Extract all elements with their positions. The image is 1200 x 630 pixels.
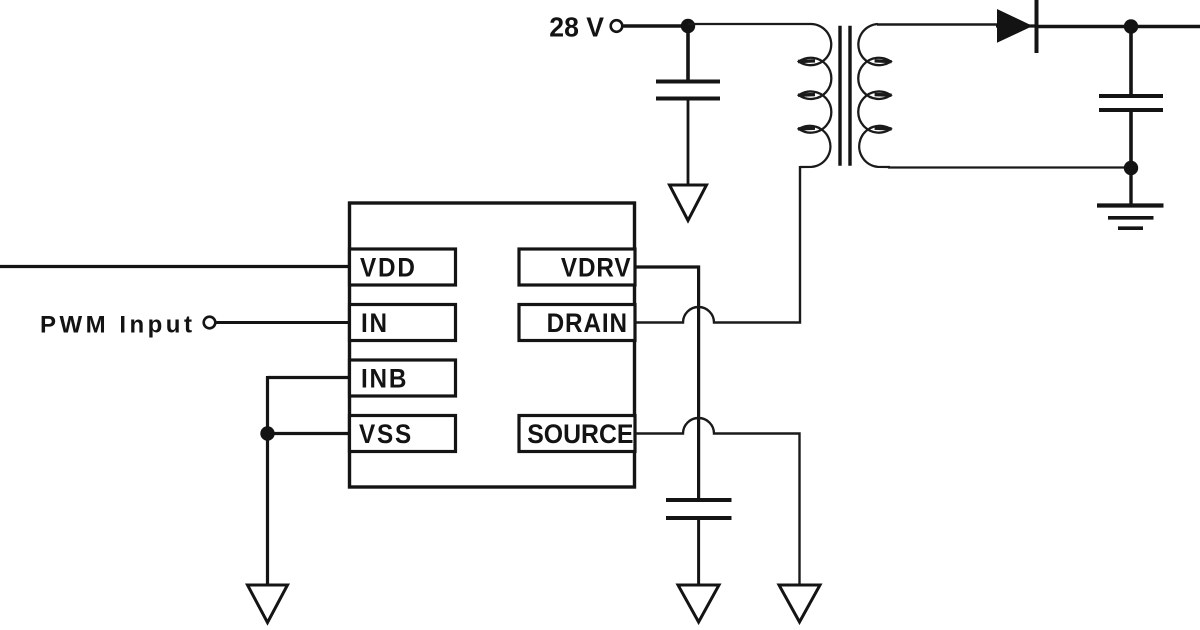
transformer T1 secondary winding xyxy=(858,24,890,167)
wire: under diode xyxy=(996,24,1036,27)
svg-text:INB: INB xyxy=(361,364,408,393)
capacitor C2 top lead xyxy=(1129,27,1133,95)
pin VSS box xyxy=(350,416,456,452)
svg-text:VSS: VSS xyxy=(359,420,413,449)
wire: VSS pin to junction xyxy=(268,432,352,435)
svg-text:28 V: 28 V xyxy=(549,11,604,43)
capacitor C2 bottom lead xyxy=(1129,112,1133,168)
svg-text:VDD: VDD xyxy=(360,253,417,282)
pin SOURCE box xyxy=(519,416,635,452)
capacitor C1 plates xyxy=(656,80,720,84)
wire: INB pin to left vertical xyxy=(268,376,352,379)
wire: PWM Input to IN pin xyxy=(217,321,352,324)
wire: VDRV to bootstrap capacitor xyxy=(635,267,699,498)
junction: output node bottom xyxy=(1124,161,1138,175)
terminal: PWM Input open circle xyxy=(204,317,216,329)
svg-text:IN: IN xyxy=(361,309,389,338)
ground: triangle below SOURCE xyxy=(779,585,820,622)
wire: output node to right edge xyxy=(1131,25,1200,28)
op-amp U1: driver IC outline xyxy=(350,203,635,487)
ground: triangle below C3 xyxy=(678,585,719,622)
wire: node to earth ground xyxy=(1129,168,1132,206)
wire: secondary bottom to output ground node xyxy=(888,166,1131,168)
wire: DRAIN with hop to transformer primary xyxy=(635,166,800,323)
pin IN box xyxy=(350,305,456,341)
junction: 28V node xyxy=(681,19,695,33)
ground: earth symbol right xyxy=(1097,203,1164,207)
wire: secondary top to diode anode xyxy=(877,23,998,25)
capacitor C2 plates xyxy=(1099,94,1163,98)
diode D1 cathode bar xyxy=(1035,0,1039,53)
capacitor C3 bottom lead xyxy=(697,520,700,586)
pin DRAIN box xyxy=(519,305,635,341)
diode D1 xyxy=(998,10,1032,42)
capacitor C3 plates xyxy=(666,498,732,502)
ground: signal ground below VSS xyxy=(248,585,288,623)
capacitor C1 bottom lead xyxy=(687,101,690,186)
wire: VDD rail from left edge to IC xyxy=(0,265,351,268)
svg-text:SOURCE: SOURCE xyxy=(527,420,633,449)
svg-text:VDRV: VDRV xyxy=(561,253,632,282)
junction: INB/VSS node xyxy=(260,426,274,440)
transformer T1 primary cusp horns xyxy=(798,59,815,63)
pin VDD box xyxy=(350,249,456,285)
transformer T1 secondary cusp horns xyxy=(875,59,892,63)
ground: triangle below C1 xyxy=(670,185,707,221)
transformer T1 primary winding xyxy=(799,24,831,167)
capacitor C1 top lead xyxy=(686,26,690,80)
terminal: 28V open circle xyxy=(611,20,623,32)
wire: 28V terminal to junction xyxy=(624,24,689,27)
wire: 28V node to transformer primary xyxy=(688,23,812,25)
svg-text:DRAIN: DRAIN xyxy=(547,309,628,338)
pin INB box xyxy=(350,360,456,396)
pin VDRV box xyxy=(519,249,635,285)
svg-text:PWM Input: PWM Input xyxy=(40,312,195,339)
wire: diode cathode to output node xyxy=(1036,25,1131,28)
junction: output node top xyxy=(1124,19,1138,33)
wire: vertical INB/VSS down to ground xyxy=(266,376,269,585)
transformer T1 core xyxy=(838,26,841,166)
wire: SOURCE with hop to ground xyxy=(635,418,800,586)
